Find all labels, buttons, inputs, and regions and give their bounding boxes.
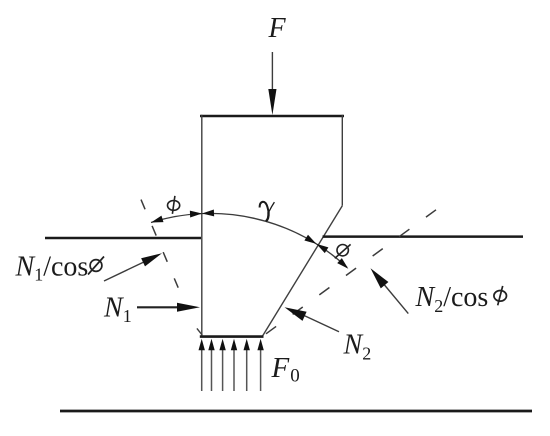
bottom ground line <box>60 410 532 413</box>
angle label phi (right, slashed circle) <box>335 244 351 258</box>
ground line left <box>45 237 201 240</box>
ground line right <box>323 235 524 238</box>
svg-text:F: F <box>268 13 287 44</box>
pier right edge <box>341 115 343 206</box>
N2/cos arrow <box>382 282 408 314</box>
pier base line <box>200 335 264 338</box>
angle arc <box>151 213 347 267</box>
distributed load F0 arrows <box>199 339 264 391</box>
N2 arrow <box>303 315 339 332</box>
pier left edge <box>201 115 203 336</box>
pier top edge <box>200 115 344 118</box>
arc arrowhead right end <box>337 258 348 269</box>
base left corner tick <box>197 328 202 335</box>
arc arrowhead pair at slant edge <box>304 235 316 244</box>
N1/cos arrow <box>104 261 147 282</box>
right dashed slip line <box>266 210 436 334</box>
N1 arrow <box>137 306 181 308</box>
svg-text:N2/cos: N2/cos <box>415 282 489 316</box>
arc arrowhead pair at column edge <box>190 211 202 218</box>
svg-text:N1/cos: N1/cos <box>15 252 89 285</box>
force F arrow <box>268 52 276 115</box>
angle label gamma <box>260 202 275 222</box>
angle label phi (left) <box>168 196 180 214</box>
left dashed slip line <box>141 200 178 288</box>
pier slant edge <box>263 206 343 336</box>
arc arrowhead left end <box>151 216 163 223</box>
